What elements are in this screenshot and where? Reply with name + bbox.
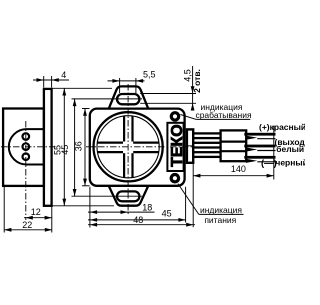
svg-text:индикация: индикация	[200, 205, 242, 215]
dimension 4.5 line and arrows	[192, 66, 194, 108]
cable sheath block	[221, 130, 247, 161]
svg-text:45: 45	[162, 209, 172, 219]
svg-text:22: 22	[22, 220, 32, 230]
svg-text:черный: черный	[275, 157, 305, 167]
cross slot horizontal lines	[97, 142, 123, 144]
dimension 48 line and arrows	[88, 224, 195, 226]
dimension 5.5 line and arrows	[108, 80, 145, 82]
front view bottom tab slot	[117, 191, 139, 201]
side view sensing head (stadium)	[9, 129, 44, 164]
power indication leader	[199, 213, 244, 215]
dimension 140 line and arrows	[193, 175, 274, 177]
LED indicator bottom (power)	[171, 175, 178, 182]
svg-text:4,5: 4,5	[182, 69, 192, 82]
svg-text:48: 48	[133, 215, 143, 225]
dimension 12 extension line	[51, 207, 53, 233]
side view hole 3	[23, 153, 30, 160]
dimension 45 line and arrows (front)	[88, 219, 186, 221]
front view bottom mounting tab	[109, 186, 148, 206]
svg-text:140: 140	[231, 164, 246, 174]
dimension 55 extension lines	[52, 87, 112, 89]
front view top mounting tab	[109, 86, 148, 108]
svg-text:(+)красный: (+)красный	[259, 122, 305, 132]
svg-text:белый: белый	[276, 144, 304, 154]
wire end red	[244, 133, 275, 136]
dimension 45 line and arrows	[74, 99, 76, 196]
dimension 36 extension lines	[82, 108, 90, 110]
svg-text:питания: питания	[204, 215, 236, 225]
dimension 55 line and arrows	[63, 88, 65, 206]
front view top tab slot	[117, 94, 139, 104]
cable conductors	[193, 132, 220, 134]
svg-text:36: 36	[73, 141, 83, 151]
actuation indication leader	[196, 118, 250, 120]
cable gland centerline	[187, 145, 193, 147]
sensing face inner circle	[97, 116, 159, 178]
svg-text:12: 12	[31, 207, 41, 217]
front view horizontal centerline	[86, 146, 196, 148]
dimension 4 extension lines	[43, 76, 45, 88]
side view hole 1	[23, 133, 30, 140]
svg-text:срабатывания: срабатывания	[195, 110, 252, 120]
svg-text:18: 18	[142, 202, 152, 212]
svg-text:ТЕКО: ТЕКО	[169, 124, 186, 167]
cable gland	[187, 129, 193, 162]
front view vertical centerline	[127, 84, 129, 215]
wire end white	[244, 145, 275, 148]
side view horizontal centerline	[1, 146, 58, 148]
dimension 12 line and arrows	[24, 217, 52, 219]
svg-text:5,5: 5,5	[143, 69, 156, 79]
dimension 4 line and arrows	[33, 79, 69, 81]
side view hole 2	[23, 143, 30, 150]
dimension 22 line and arrows	[4, 229, 52, 231]
svg-text:45: 45	[60, 145, 70, 155]
dimension 18 line and arrows	[88, 211, 155, 213]
dimension 5.5 extension lines	[119, 78, 121, 93]
dimension 4.5 extension lines	[140, 93, 196, 95]
bottom dimensions extension lines	[89, 187, 91, 228]
svg-text:2 отв.: 2 отв.	[192, 69, 202, 93]
wire end extension line	[273, 126, 275, 180]
dimension 36 line and arrows	[84, 109, 86, 186]
side view hole axis vertical centerline	[25, 121, 27, 220]
dimension 22 extension line	[3, 187, 5, 233]
wire end black	[244, 156, 275, 159]
sensing face outer circle	[94, 112, 163, 181]
dimension 140 extension line left	[192, 164, 194, 228]
svg-text:4: 4	[61, 70, 66, 80]
dimension 45 extension lines (slot centerlines)	[72, 98, 143, 100]
side view body	[3, 109, 44, 186]
side view mounting plate	[44, 89, 52, 206]
cross slot vertical lines	[123, 116, 125, 142]
front view body	[90, 109, 185, 186]
LED strip frame	[167, 123, 183, 171]
LED indicator top (actuation)	[171, 113, 178, 120]
